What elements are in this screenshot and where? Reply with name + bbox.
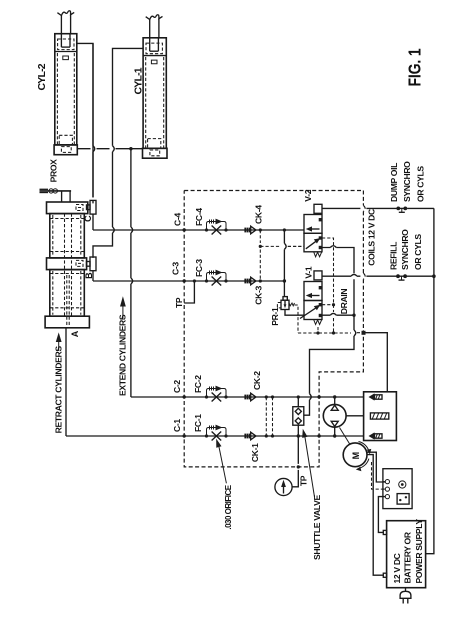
svg-text:12 V DC: 12 V DC (392, 553, 402, 583)
flow line C-1 (66, 435, 364, 437)
node REFILL on supply bus (432, 274, 436, 278)
svg-text:REFILL: REFILL (389, 242, 399, 270)
check valve CK-3 (245, 277, 256, 285)
svg-text:EXTEND CYLINDERS: EXTEND CYLINDERS (118, 314, 128, 396)
jump of drain wire over drain gallery dashed (354, 330, 356, 336)
pilot stub from V-1 spring end (317, 327, 319, 333)
supply drop wire from C-4 line to PR-1 and C-3 node (283, 230, 285, 297)
drain wire to reservoir (366, 333, 388, 392)
drain wire from V-2 and V-1 to shuttle valve (304, 248, 354, 416)
jump of dashed enclosure over REFILL wire (363, 273, 365, 279)
svg-text:A: A (70, 330, 80, 337)
wire from CYL-1 top port down (93, 48, 143, 258)
flow control valve FC-4 (205, 219, 228, 235)
check valve CK-1 (245, 432, 256, 440)
wire V-1 drain port (322, 314, 354, 316)
pump (323, 397, 363, 436)
pilot line into V-2 from check valves (288, 245, 304, 247)
control box (383, 469, 412, 509)
check valve CK-4 (245, 226, 256, 234)
node C-4 at enclosure (183, 228, 186, 231)
node pump on C-2 (333, 395, 336, 398)
test point gauge TP (275, 436, 298, 496)
node C-2 at pump enclosure edge (317, 395, 320, 398)
master synchronizing cylinder (45, 202, 89, 328)
port fitting B on master cylinder (87, 257, 97, 271)
power plug symbol (400, 588, 411, 604)
label SHUTTLE VALVE with leader arrow (302, 429, 322, 560)
rod of CYL-2 with break symbol (57, 11, 74, 34)
node at bottom line junction (129, 147, 132, 150)
svg-text:POWER SUPPLY: POWER SUPPLY (414, 519, 424, 584)
wire battery negative to motor (367, 455, 383, 576)
jump of wire x=130.9 over C-4 line (131, 227, 133, 233)
wire REFILL from V-1 coil (322, 275, 434, 277)
svg-text:CK-4: CK-4 (254, 205, 264, 224)
check valve CK-2 (245, 393, 256, 401)
svg-text:FIG. 1: FIG. 1 (405, 48, 425, 86)
node shuttle on C-2 (297, 395, 300, 398)
supply bus wire on right (426, 208, 434, 553)
test port TP stub on enclosure (184, 281, 194, 303)
svg-text:COILS 12 V DC: COILS 12 V DC (367, 209, 377, 266)
wire from port C down to C-4 line (92, 214, 94, 230)
wire DUMP from V-2 coil (322, 207, 434, 209)
svg-text:V-1: V-1 (304, 266, 314, 278)
switch REFILL (396, 274, 407, 280)
svg-text:OR CYLS: OR CYLS (413, 234, 423, 270)
solenoid valve V-1 (300, 271, 322, 325)
jump of V-1 drain wire over pilot header (330, 313, 336, 315)
jump of drain wire over pilot header (330, 246, 336, 248)
wire connecting CYL-2 bottom to CYL-1 bottom (77, 148, 142, 150)
wire battery positive to control box (378, 497, 385, 533)
flow control valve FC-2 (205, 386, 228, 402)
battery box (383, 519, 425, 588)
svg-text:FC-4: FC-4 (194, 208, 204, 226)
jump of wire x=130.9 over C-3 line (131, 278, 133, 284)
shuttle valve (293, 397, 304, 436)
svg-text:DRAIN: DRAIN (339, 289, 349, 315)
svg-text:DUMP OIL: DUMP OIL (389, 163, 399, 202)
svg-text:C-2: C-2 (172, 380, 182, 393)
node shuttle on C-1 (297, 434, 300, 437)
svg-text:C-3: C-3 (170, 262, 180, 275)
flow line C-4 (93, 229, 304, 231)
pilot lines between C-2 and C-1 lines (265, 395, 274, 437)
svg-text:.030 ORIFICE: .030 ORIFICE (224, 484, 233, 529)
svg-text:SYNCHRO: SYNCHRO (402, 161, 412, 202)
svg-text:SYNCHRO: SYNCHRO (400, 229, 410, 270)
switch DUMP (396, 207, 407, 213)
svg-text:C-4: C-4 (172, 213, 182, 226)
svg-text:FC-2: FC-2 (193, 375, 203, 393)
node pump on C-1 (333, 434, 336, 437)
relief valve PR-1 (277, 297, 294, 310)
cylinder CYL-1 (143, 38, 168, 158)
svg-text:CK-3: CK-3 (254, 285, 264, 304)
svg-text:TP: TP (174, 297, 184, 308)
pilot dashed line from PR-1 to drain gallery (295, 305, 299, 333)
solenoid valve V-2 (304, 204, 322, 256)
label .030 ORIFICE with leader arrow (216, 439, 233, 530)
wire from port B down to C-3 line (92, 271, 94, 281)
flow line C-3 (93, 280, 284, 282)
svg-text:CYL-2: CYL-2 (36, 63, 48, 90)
jump of dashed enclosure over DUMP wire (363, 205, 365, 211)
svg-text:V-2: V-2 (303, 189, 313, 201)
jump of supply drop over pilot dashed line (284, 243, 286, 249)
node C-1 at pump enclosure edge (317, 434, 320, 437)
pilot line between CK-4 and CK-3 outlets (259, 228, 304, 282)
jump of REFILL wire over drain wire (351, 274, 357, 276)
jump of wire x=93 over bottom line (91, 43, 95, 197)
jump of wire x=112.5 over C-4 line (113, 227, 115, 233)
wire from PR-1 outlet to V-1 port (285, 310, 304, 316)
svg-text:C-1: C-1 (172, 419, 182, 432)
svg-text:TP: TP (299, 475, 309, 486)
label EXTEND CYLINDERS with arrow (118, 296, 128, 396)
node C-3 at enclosure (183, 279, 186, 282)
svg-text:PROX: PROX (48, 159, 58, 183)
flow control valve FC-1 (205, 425, 228, 441)
drain gallery dashed line (298, 332, 363, 334)
jump of wire x=112.5 over bottom line (113, 146, 115, 152)
label RETRACT CYLINDERS with arrow (53, 332, 63, 433)
wire motor to control box (367, 452, 385, 482)
node C-1 at enclosure (183, 434, 186, 437)
port fitting C on master cylinder (87, 200, 97, 214)
svg-text:SHUTTLE VALVE: SHUTTLE VALVE (312, 495, 322, 560)
jump of drain wire over C-2 line (310, 394, 312, 400)
wire from CYL-2 top port to master cylinder port C (77, 43, 93, 203)
svg-text:OR CYLS: OR CYLS (415, 166, 425, 202)
node drain exits enclosure (362, 331, 366, 335)
svg-text:M: M (351, 452, 361, 460)
svg-text:BATTERY OR: BATTERY OR (403, 531, 413, 583)
rod of CYL-1 with break symbol (146, 15, 163, 38)
label REFILL SYNCHRO OR CYLS (389, 229, 424, 270)
svg-text:PR-1: PR-1 (270, 307, 280, 326)
proximity sensor PROX (40, 189, 72, 202)
label DUMP OIL SYNCHRO OR CYLS (389, 161, 426, 202)
wire from port A down to C-1 line (65, 328, 67, 436)
svg-text:CK-2: CK-2 (252, 371, 262, 390)
svg-text:CK-1: CK-1 (250, 443, 260, 462)
svg-text:B: B (84, 272, 94, 279)
label FIG. 1 (405, 48, 425, 86)
svg-text:FC-1: FC-1 (193, 414, 203, 432)
node V-1 drain tee (352, 314, 355, 317)
flow control valve FC-3 (205, 270, 228, 286)
flow line C-2 (131, 396, 364, 398)
pilot header dashed from V-2 and V-1 (322, 238, 335, 333)
svg-text:C: C (83, 215, 93, 222)
node C-2 at enclosure (183, 395, 186, 398)
reservoir with strainers and filter (364, 392, 397, 441)
manifold dashed enclosure (184, 191, 363, 467)
svg-text:CYL-1: CYL-1 (133, 67, 145, 94)
cylinder CYL-2 (54, 34, 77, 155)
wire from bottom line junction down to C-2 line (130, 149, 132, 397)
node drain gallery to pilot header (332, 331, 335, 334)
svg-text:RETRACT CYLINDERS: RETRACT CYLINDERS (53, 346, 63, 434)
svg-text:FC-3: FC-3 (194, 259, 204, 277)
node TP wire crosses enclosure bottom (297, 465, 300, 468)
dashed wire motor to control box (372, 462, 386, 489)
motor M (340, 428, 372, 472)
